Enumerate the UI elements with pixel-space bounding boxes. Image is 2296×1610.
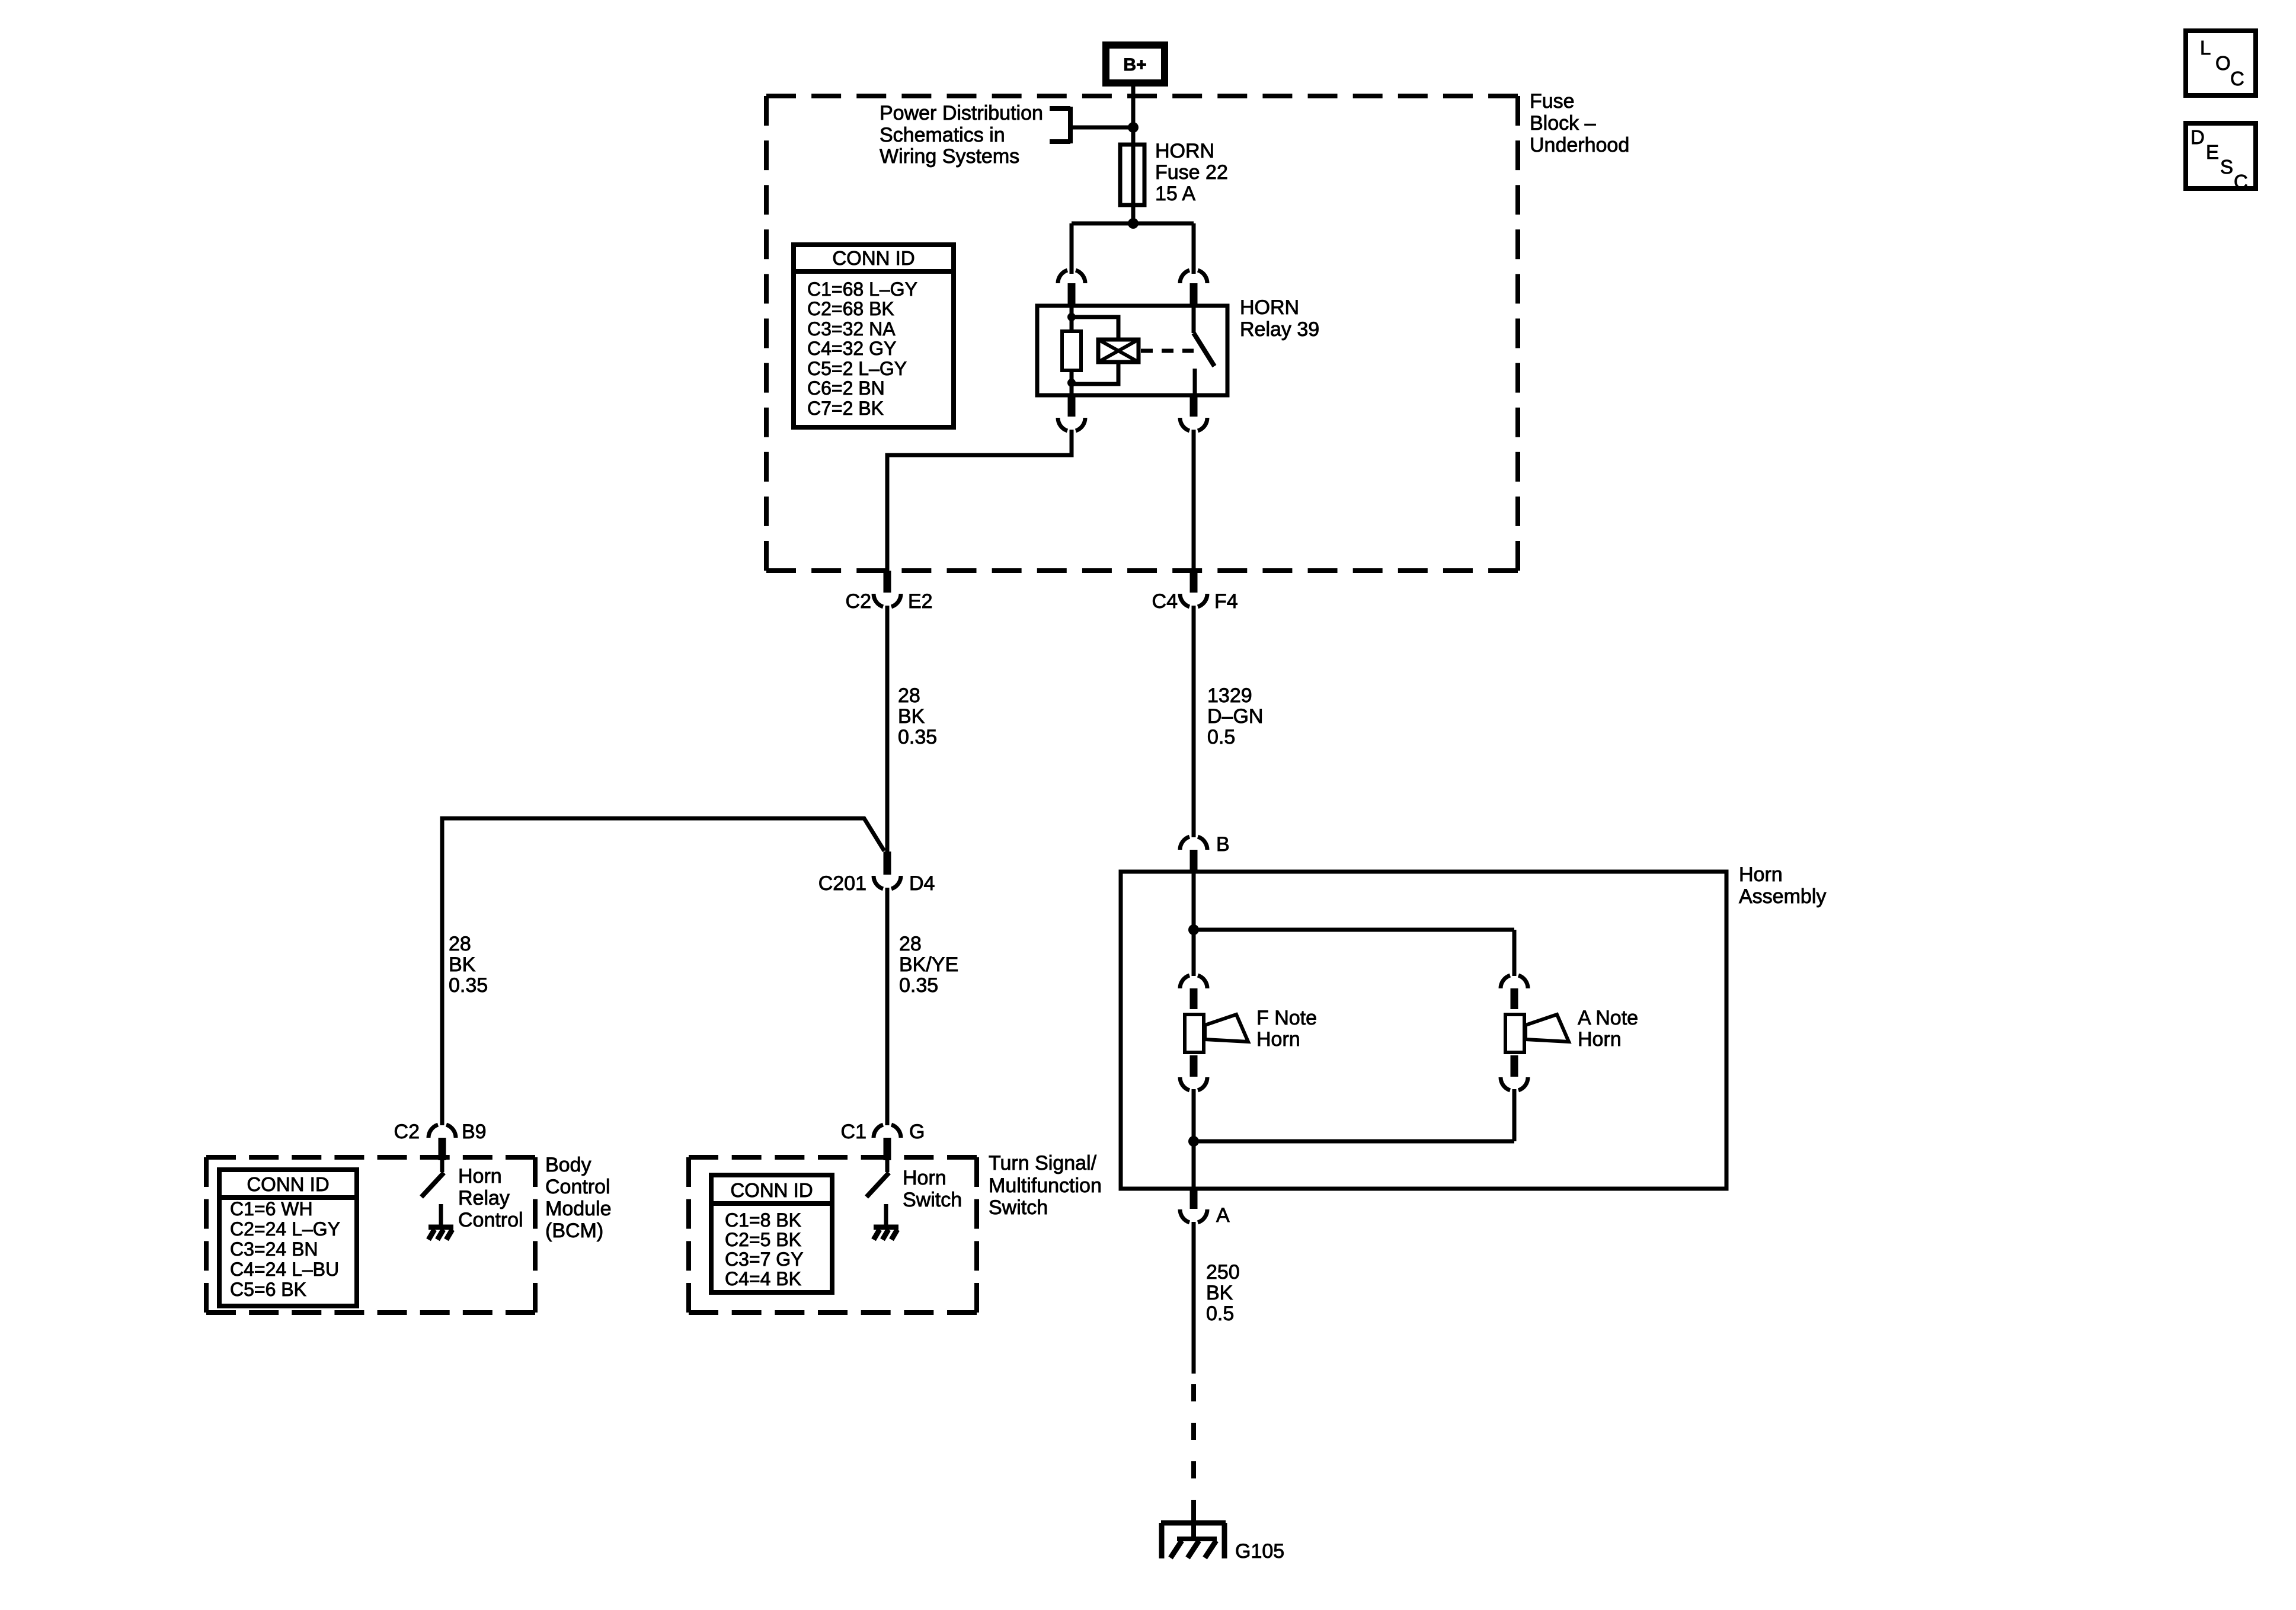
svg-text:B9: B9	[462, 1121, 487, 1143]
svg-text:C2=24 L–GY: C2=24 L–GY	[230, 1218, 340, 1240]
connector B horn assembly	[1180, 833, 1230, 871]
wire split bottom horizontal	[1194, 1140, 1514, 1144]
wire relay 87a down	[1192, 430, 1196, 572]
svg-text:Horn: Horn	[1578, 1028, 1622, 1051]
svg-text:CONN ID: CONN ID	[832, 247, 914, 269]
svg-text:Underhood: Underhood	[1530, 134, 1629, 156]
svg-text:1329: 1329	[1207, 684, 1252, 707]
fuse HORN Fuse 22	[1120, 145, 1144, 205]
svg-text:S: S	[2220, 156, 2233, 178]
svg-text:C4: C4	[1152, 590, 1178, 613]
svg-text:Switch: Switch	[989, 1196, 1048, 1219]
LOC box	[2186, 31, 2256, 95]
svg-text:CONN ID: CONN ID	[730, 1179, 813, 1201]
svg-text:C2=68 BK: C2=68 BK	[807, 298, 894, 319]
svg-text:A Note: A Note	[1578, 1007, 1638, 1029]
wire branch BCM horn relay control	[442, 818, 884, 1125]
connector C2 B9	[394, 1121, 487, 1160]
svg-text:C1=68 L–GY: C1=68 L–GY	[807, 279, 917, 300]
wire bracket to node	[1070, 126, 1133, 130]
svg-text:B: B	[1216, 833, 1230, 856]
label Horn Assembly	[1739, 863, 1826, 908]
relay switch contact bottom	[1193, 369, 1197, 395]
svg-text:F Note: F Note	[1256, 1007, 1317, 1029]
wire to relay pin left	[1070, 223, 1074, 274]
connector A horn assembly ground lead	[1180, 1188, 1230, 1227]
ground turn signal internal	[874, 1204, 898, 1240]
wire E2 to C201	[885, 606, 890, 853]
turn signal dashed boundary	[689, 1157, 977, 1313]
CONN ID table fuse block	[794, 245, 954, 427]
wire F4 to B	[1192, 606, 1196, 837]
svg-text:C3=7 GY: C3=7 GY	[725, 1249, 804, 1270]
svg-text:G: G	[909, 1121, 925, 1143]
svg-text:C3=32 NA: C3=32 NA	[807, 318, 896, 340]
svg-text:C: C	[2234, 171, 2248, 193]
svg-text:C4=24 L–BU: C4=24 L–BU	[230, 1259, 339, 1280]
svg-text:C3=24 BN: C3=24 BN	[230, 1238, 318, 1260]
wire to F horn	[1192, 930, 1196, 976]
node merge bottom	[1188, 1136, 1199, 1147]
wire split horizontal	[1072, 222, 1194, 226]
svg-text:C201: C201	[818, 872, 866, 895]
connector A horn bottom	[1501, 1055, 1528, 1090]
svg-text:Power Distribution: Power Distribution	[880, 102, 1043, 124]
CONN ID table turn signal	[711, 1175, 832, 1292]
svg-text:0.35: 0.35	[899, 974, 938, 997]
svg-text:Control: Control	[458, 1209, 523, 1231]
svg-text:C1: C1	[841, 1121, 866, 1143]
svg-text:F4: F4	[1214, 590, 1238, 613]
svg-text:C2: C2	[394, 1121, 420, 1143]
svg-text:28: 28	[898, 684, 920, 707]
ground G105	[1161, 1523, 1284, 1563]
connector A horn top	[1501, 975, 1528, 1009]
horn assembly box	[1121, 872, 1726, 1189]
wire merge to A connector	[1192, 1141, 1196, 1188]
svg-text:Horn: Horn	[1739, 863, 1783, 886]
svg-text:Horn: Horn	[1256, 1028, 1300, 1051]
wire A to ground solid	[1192, 1222, 1196, 1374]
CONN ID table BCM	[219, 1170, 357, 1306]
horn relay control switch	[421, 1160, 444, 1197]
svg-text:G105: G105	[1235, 1540, 1284, 1563]
node junction below B+	[1128, 122, 1139, 133]
label wire 250 BK 0.5	[1206, 1261, 1240, 1325]
label Fuse Block - Underhood	[1530, 90, 1629, 156]
svg-text:Block –: Block –	[1530, 112, 1596, 135]
relay HORN Relay 39 box	[1037, 306, 1227, 395]
node split top	[1188, 924, 1199, 935]
label Power Distribution Schematics in Wiring Systems	[880, 102, 1043, 168]
connector C4 F4	[1152, 571, 1238, 613]
connector C2 E2	[846, 571, 933, 613]
svg-text:C2: C2	[846, 590, 871, 613]
svg-text:28: 28	[449, 933, 471, 955]
svg-text:Horn: Horn	[903, 1167, 946, 1189]
svg-text:Relay 39: Relay 39	[1240, 318, 1319, 341]
svg-text:Fuse: Fuse	[1530, 90, 1575, 113]
label HORN Fuse 22 15 A	[1155, 140, 1228, 205]
svg-text:28: 28	[899, 933, 922, 955]
svg-text:15 A: 15 A	[1155, 183, 1195, 205]
svg-text:0.5: 0.5	[1206, 1302, 1234, 1325]
label Horn Switch	[903, 1167, 962, 1211]
label wire 1329 D-GN 0.5	[1207, 684, 1263, 748]
svg-text:CONN ID: CONN ID	[247, 1173, 329, 1195]
svg-text:D4: D4	[909, 872, 935, 895]
svg-text:D: D	[2191, 126, 2205, 148]
wire F horn down	[1192, 1089, 1196, 1144]
connector relay switch feed terminal	[1180, 270, 1207, 305]
wire to A horn	[1512, 930, 1517, 976]
svg-text:Horn: Horn	[458, 1165, 502, 1188]
DESC box	[2186, 123, 2256, 193]
svg-text:0.5: 0.5	[1207, 726, 1235, 748]
label Turn Signal Multifunction Switch	[989, 1152, 1102, 1219]
relay switch blade	[1194, 333, 1214, 366]
svg-text:C2=5 BK: C2=5 BK	[725, 1229, 801, 1250]
svg-text:Switch: Switch	[903, 1189, 962, 1211]
svg-text:BK/YE: BK/YE	[899, 953, 958, 976]
svg-text:(BCM): (BCM)	[545, 1219, 603, 1242]
fuse block dashed boundary	[766, 96, 1518, 571]
connector C1 G	[841, 1121, 925, 1160]
label Body Control Module (BCM)	[545, 1154, 612, 1242]
connector F horn top	[1180, 975, 1207, 1009]
bracket for power distribution reference	[1050, 107, 1070, 143]
wire B+ down	[1131, 83, 1136, 146]
svg-text:C5=2 L–GY: C5=2 L–GY	[807, 358, 907, 379]
svg-text:Control: Control	[545, 1176, 610, 1198]
svg-text:A: A	[1216, 1204, 1230, 1227]
svg-text:Relay: Relay	[458, 1187, 510, 1209]
svg-text:Turn Signal/: Turn Signal/	[989, 1152, 1097, 1174]
relay internal left pin line	[1070, 306, 1074, 395]
label F Note Horn	[1256, 1007, 1317, 1051]
node coil top	[1067, 313, 1076, 321]
wire C201 to horn switch	[885, 888, 890, 1125]
svg-text:BK: BK	[898, 705, 925, 728]
svg-text:Schematics in: Schematics in	[880, 124, 1005, 146]
svg-text:L: L	[2200, 37, 2211, 59]
svg-text:Multifunction: Multifunction	[989, 1174, 1102, 1197]
wire split top horizontal	[1194, 928, 1514, 932]
svg-text:C6=2 BN: C6=2 BN	[807, 377, 885, 399]
F Note Horn symbol	[1185, 1014, 1248, 1052]
dashed actuation link	[1141, 349, 1194, 353]
battery terminal B+	[1106, 45, 1165, 83]
svg-text:250: 250	[1206, 1261, 1240, 1283]
A Note Horn symbol	[1505, 1014, 1569, 1052]
svg-text:HORN: HORN	[1240, 296, 1299, 319]
svg-text:Fuse 22: Fuse 22	[1155, 161, 1228, 184]
wire dashed to G105	[1191, 1384, 1196, 1508]
wire coil loop	[1072, 317, 1118, 384]
BCM dashed boundary	[206, 1157, 535, 1313]
svg-text:Module: Module	[545, 1198, 612, 1220]
wire fuse to junction	[1131, 205, 1136, 226]
node junction below fuse	[1128, 218, 1139, 229]
label wire 28 BK/YE 0.35	[899, 933, 958, 997]
connector C201 D4	[818, 852, 935, 895]
svg-text:C7=2 BK: C7=2 BK	[807, 398, 884, 419]
resistor relay coil suppression	[1062, 331, 1081, 370]
svg-text:Assembly: Assembly	[1739, 885, 1826, 908]
relay coil symbol	[1098, 340, 1139, 362]
wire to relay pin right	[1192, 223, 1196, 274]
ground BCM internal	[428, 1204, 453, 1240]
label wire 28 BK 0.35 circuit	[898, 684, 937, 748]
wire relay 85 to fuse block exit	[887, 430, 1072, 572]
label HORN Relay 39	[1240, 296, 1319, 341]
svg-text:BK: BK	[449, 953, 476, 976]
connector F horn bottom	[1180, 1055, 1207, 1090]
svg-text:BK: BK	[1206, 1282, 1233, 1304]
connector relay switch output terminal	[1180, 395, 1207, 431]
svg-text:C5=6 BK: C5=6 BK	[230, 1279, 306, 1300]
svg-text:0.35: 0.35	[898, 726, 937, 748]
svg-text:E: E	[2206, 141, 2219, 163]
wire A horn down	[1512, 1089, 1517, 1141]
svg-text:B+: B+	[1123, 55, 1146, 75]
node coil bottom	[1067, 379, 1076, 387]
connector relay coil output terminal	[1058, 395, 1085, 431]
svg-text:C4=4 BK: C4=4 BK	[725, 1268, 801, 1289]
svg-text:C1=6 WH: C1=6 WH	[230, 1198, 313, 1219]
label Horn Relay Control	[458, 1165, 523, 1231]
svg-text:O: O	[2215, 52, 2231, 74]
svg-text:C4=32 GY: C4=32 GY	[807, 338, 896, 359]
svg-text:E2: E2	[908, 590, 933, 613]
svg-text:C1=8 BK: C1=8 BK	[725, 1209, 801, 1231]
horn switch blade	[866, 1160, 889, 1197]
label wire 28 BK 0.35 left branch	[449, 933, 488, 997]
label A Note Horn	[1578, 1007, 1638, 1051]
svg-text:C: C	[2230, 68, 2244, 89]
wire B into assembly	[1192, 871, 1196, 932]
svg-text:Wiring Systems: Wiring Systems	[880, 145, 1019, 168]
connector relay coil feed terminal	[1058, 270, 1085, 305]
svg-text:D–GN: D–GN	[1207, 705, 1263, 728]
relay switch contact top	[1192, 306, 1196, 333]
svg-text:0.35: 0.35	[449, 974, 488, 997]
svg-text:Body: Body	[545, 1154, 591, 1176]
svg-text:HORN: HORN	[1155, 140, 1214, 162]
